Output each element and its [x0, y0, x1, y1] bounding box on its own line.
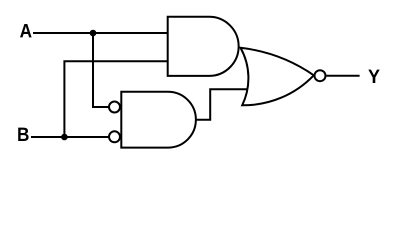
wire B input [31, 136, 110, 138]
wire U2 output to U3 lower input [196, 89, 249, 119]
junction node A [90, 30, 97, 37]
wire Y output [327, 75, 360, 77]
wire A branch down to inverted input [93, 33, 109, 107]
wire A input [33, 32, 168, 34]
and-gate U2 [121, 92, 196, 148]
label Y [368, 70, 379, 83]
input bubble U2 bottom [109, 131, 120, 142]
junction node B [61, 134, 68, 141]
output bubble U3 [315, 70, 326, 81]
label A [20, 24, 32, 37]
label B [18, 128, 28, 141]
wire B branch up to AND1 lower input [64, 61, 168, 137]
nor-gate U3 [241, 48, 314, 106]
input bubble U2 top [109, 102, 120, 113]
and-gate U1 [168, 17, 239, 76]
